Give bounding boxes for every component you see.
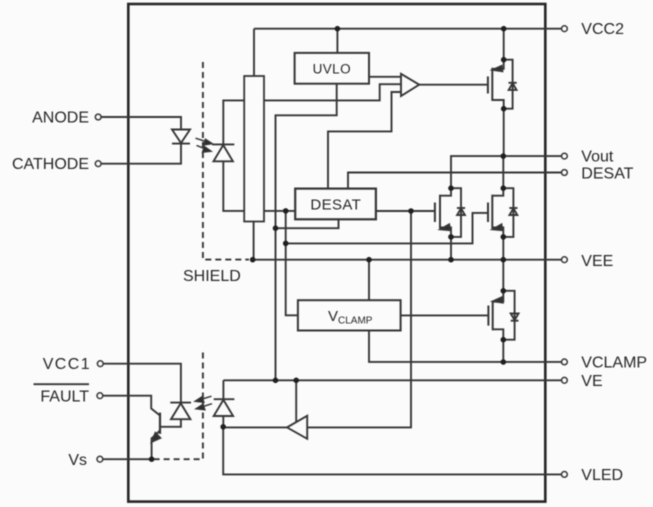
LED D1 input optocoupler	[172, 130, 190, 144]
junction DESAT node / Q3 gate wire	[283, 241, 289, 247]
pin VCLAMP terminal	[562, 359, 568, 365]
wire Q3 source to VEE	[502, 237, 504, 260]
junction VCLAMP wire / Q4	[501, 359, 507, 365]
junction Q1 drain / body diode	[501, 57, 507, 63]
wire buffer input C from DESAT top	[328, 92, 401, 189]
VCLAMP block U4	[298, 300, 401, 330]
wire ANODE lead	[102, 117, 182, 130]
junction DESAT input node	[283, 208, 289, 214]
wire shield plate bottom lead	[253, 222, 255, 260]
wire Q3 drain up to Vout	[502, 156, 504, 188]
wire D2 cathode to buffer input B	[223, 84, 401, 144]
light arrows from D4 to D3	[195, 396, 212, 410]
wire UVLO bottom path to VE	[276, 84, 337, 381]
photodiode D3	[170, 403, 191, 420]
pin VLED terminal	[562, 472, 568, 478]
svg-text:SHIELD: SHIELD	[183, 268, 241, 285]
wire Q3 gate from node	[286, 213, 488, 244]
wire Q4 drain to VEE rail	[502, 260, 504, 291]
node label FAULT with overline	[34, 384, 90, 405]
wire Vout	[451, 156, 562, 188]
svg-text:VE: VE	[581, 373, 602, 390]
UVLO block U2	[295, 53, 369, 84]
junction VE rail / UVLO path	[273, 378, 279, 384]
junction VEE rail / VCLAMP	[366, 257, 372, 263]
wire LED D4 top lead to VE	[222, 380, 224, 399]
wire UVLO top lead	[336, 29, 338, 53]
svg-text:VLED: VLED	[581, 467, 623, 484]
pin VCC2 terminal	[562, 26, 568, 32]
svg-text:CATHODE: CATHODE	[12, 156, 89, 173]
svg-text:Vs: Vs	[68, 452, 87, 469]
junction Q3 drain	[501, 185, 507, 191]
wire node chain to VCLAMP left input	[286, 211, 298, 315]
junction VEE rail / Q3 Q4	[501, 257, 507, 263]
wire Vs	[102, 458, 152, 460]
junction VCC2 rail / UVLO	[335, 26, 341, 32]
svg-text:DESAT: DESAT	[581, 166, 633, 183]
junction Q2 source	[448, 234, 454, 240]
wire VCLAMP top lead from VEE	[368, 260, 370, 301]
junction VCC2 rail / Q1 drain	[501, 26, 507, 32]
svg-text:UVLO: UVLO	[313, 62, 351, 77]
junction Q2 drain	[448, 185, 454, 191]
shield dashed line upper	[203, 62, 249, 260]
junction Q4 source / body diode	[501, 337, 507, 343]
pin FAULT terminal	[97, 393, 103, 399]
wire VE branch to inverter top	[295, 380, 297, 421]
transistor Q1 top MOSFET	[488, 60, 517, 109]
shield plate rectangle	[244, 76, 264, 222]
transistor Q2 middle-left MOSFET	[435, 188, 465, 237]
wire UVLO out to buffer input A	[369, 76, 401, 78]
wire Q5 emitter to Vs	[151, 438, 153, 460]
inverter U6	[287, 416, 307, 439]
junction Vs / Q5 emitter / shield	[149, 456, 155, 462]
transistor Q5 fault NPN	[151, 409, 160, 442]
wire VEE rail	[253, 259, 562, 261]
buffer U5	[401, 74, 419, 96]
wire shield plate top lead	[253, 29, 255, 76]
wire DESAT pin	[348, 173, 562, 189]
pin CATHODE terminal	[95, 161, 101, 167]
pin VCC1 terminal	[97, 361, 103, 367]
wire D4 anode down to VLED	[223, 427, 561, 475]
junction VEE rail / shield plate	[250, 257, 256, 263]
wire DESAT out to Q2 gate	[376, 210, 435, 212]
wire Q1 drain to VCC2 rail	[503, 29, 505, 60]
junction Q3 source	[501, 234, 507, 240]
pin VE terminal	[562, 377, 568, 383]
wire inverter out to LED D4 anode	[223, 426, 287, 428]
shield dashed line lower	[153, 353, 203, 460]
wire buffer output to Q1 gate	[419, 84, 488, 86]
photodiode D2	[212, 144, 234, 161]
transistor Q4 bottom MOSFET	[488, 291, 518, 340]
DESAT block U3	[295, 189, 376, 220]
wire VE rail	[223, 379, 561, 381]
LED D4 feedback optocoupler	[214, 399, 235, 427]
svg-text:VEE: VEE	[581, 253, 613, 270]
junction Q2 gate / inverter feed	[408, 208, 414, 214]
wire VCC2 rail	[254, 28, 562, 30]
wire DESAT gate node down to inverter input	[307, 211, 411, 427]
junction Vout node	[501, 153, 507, 159]
svg-text:VCLAMP: VCLAMP	[581, 354, 647, 371]
wire D2 anode to DESAT node	[223, 161, 294, 211]
svg-text:VCC2: VCC2	[581, 21, 624, 38]
light arrows from D1 to D2	[196, 138, 213, 152]
pin Vout terminal	[562, 153, 568, 159]
junction Q1 source / body diode	[501, 106, 507, 112]
svg-text:Vout: Vout	[581, 149, 614, 166]
wire D3 cathode to VCC1	[102, 364, 181, 403]
wire VCLAMP pin	[369, 331, 562, 362]
wire Q5 collector to FAULT	[102, 396, 152, 409]
svg-text:ANODE: ANODE	[32, 110, 89, 127]
svg-text:FAULT: FAULT	[40, 388, 89, 405]
junction UVLO path / DESAT bottom	[273, 225, 279, 231]
outer box	[128, 4, 545, 502]
pin ANODE terminal	[95, 114, 101, 120]
wire Q4 source to VCLAMP wire	[502, 340, 504, 362]
wire Q1 source down to Vout node	[503, 109, 505, 156]
pin VEE terminal	[562, 257, 568, 263]
wire VCLAMP out to Q4 gate	[401, 314, 489, 316]
transistor Q3 middle-right MOSFET	[488, 188, 518, 237]
junction VEE rail / Q2	[448, 257, 454, 263]
svg-text:VCC1: VCC1	[43, 356, 91, 373]
wire D3 anode to Q5 base	[160, 419, 181, 427]
wire branch to DESAT bottom	[276, 219, 339, 228]
pin Vs terminal	[97, 456, 103, 462]
wire CATHODE lead	[102, 144, 182, 164]
svg-text:DESAT: DESAT	[310, 197, 361, 214]
junction D4 anode / inverter output	[220, 424, 226, 430]
junction VE rail / inverter	[293, 378, 299, 384]
pin DESAT terminal	[562, 170, 568, 176]
junction Q4 drain / body diode	[501, 288, 507, 294]
wire Q2 source to VEE	[450, 237, 452, 260]
